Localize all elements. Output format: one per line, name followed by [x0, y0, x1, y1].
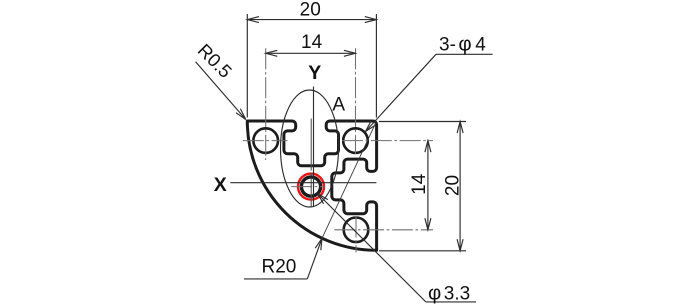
- dimension 20 top: extension lines: [246, 14, 248, 118]
- hole top-right (phi4): [343, 128, 368, 153]
- leader R20: [244, 278, 307, 280]
- R20 radius construction line to arc center: [322, 121, 377, 238]
- detail view ellipse A: [281, 90, 339, 207]
- svg-text:Y: Y: [308, 62, 321, 84]
- hole top-left (phi4): [253, 128, 278, 153]
- svg-text:20: 20: [443, 175, 464, 196]
- svg-text:R20: R20: [262, 256, 297, 277]
- svg-text:20: 20: [300, 0, 321, 21]
- center hole (phi3.3): [301, 177, 320, 196]
- leader 3-phi4: [436, 53, 493, 55]
- Y axis line: [313, 87, 315, 207]
- crosshair / 14-dim extension, bottom-right hole: [334, 229, 433, 231]
- profile outline with T-slots: [247, 121, 376, 250]
- dimension 20 top: dim line + arrows: [247, 19, 376, 21]
- crosshair top-left hole: [243, 140, 288, 142]
- crosshair center hole: [291, 186, 325, 188]
- dimension 14 top: dim line + arrows: [266, 52, 356, 54]
- red highlight ring: [298, 174, 324, 200]
- crosshair / 14-dim extension, top-left hole vertical: [265, 48, 267, 160]
- svg-text:φ3.3: φ3.3: [428, 281, 470, 304]
- svg-text:R0.5: R0.5: [194, 39, 236, 81]
- leader phi3.3: [426, 301, 476, 303]
- svg-text:14: 14: [301, 32, 323, 53]
- svg-text:14: 14: [409, 173, 430, 195]
- hole bottom-right (phi4): [344, 218, 369, 243]
- svg-text:X: X: [214, 174, 227, 196]
- dimension 20 right: dim line + arrows: [459, 122, 461, 251]
- crosshair / 14-dim extension, top-right hole: [342, 140, 433, 142]
- svg-text:3-φ4: 3-φ4: [439, 32, 486, 55]
- leader R0.5: [196, 62, 246, 120]
- svg-text:A: A: [332, 94, 345, 115]
- X axis line: [230, 182, 376, 184]
- dimension 14 right: dim line + arrows: [427, 141, 429, 230]
- dimension 20 right: extension lines: [379, 121, 466, 123]
